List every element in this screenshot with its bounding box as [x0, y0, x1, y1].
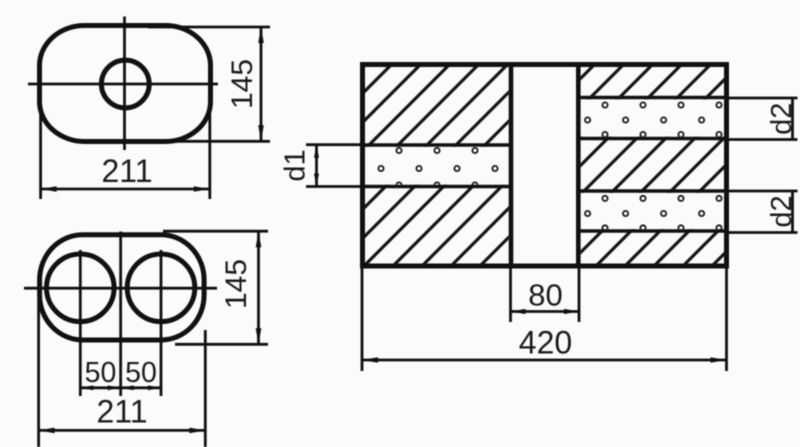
svg-text:80: 80: [528, 278, 562, 313]
right band 2 top border: [578, 189, 726, 193]
d1 extension line top: [306, 143, 362, 146]
left band top border: [363, 143, 512, 147]
extension line left (211 dim): [37, 300, 40, 447]
left perforated band interior: [365, 147, 509, 185]
svg-text:211: 211: [96, 394, 147, 430]
center pipe left border: [509, 65, 514, 267]
extension line top (145 dim): [148, 26, 270, 29]
dimension line 211 (horizontal): [41, 188, 210, 191]
svg-text:211: 211: [101, 153, 152, 189]
left chamber hatching: [365, 67, 509, 264]
extension line right (211 dim): [204, 330, 207, 447]
dimension line 145 (vertical): [257, 231, 260, 344]
extension line top (145 dim): [163, 230, 268, 233]
d2 lower extension line top: [727, 190, 798, 193]
svg-text:50: 50: [125, 357, 157, 389]
svg-text:420: 420: [519, 325, 572, 361]
420 extension line right: [725, 268, 728, 371]
extension line bottom (145 dim): [175, 343, 268, 346]
420 extension line left: [361, 268, 364, 371]
svg-text:d2: d2: [766, 195, 798, 227]
dimension line 145 (vertical): [260, 27, 263, 141]
d1 dimension line: [315, 145, 318, 187]
left circle vertical center line / extension: [79, 250, 82, 396]
extension line bottom (145 dim): [172, 140, 270, 143]
horizontal center line: [28, 83, 218, 86]
d2 upper dimension line: [791, 98, 794, 140]
d2 lower dimension line: [791, 191, 794, 233]
body interior: [365, 67, 724, 264]
horizontal center line: [24, 287, 217, 290]
extension line left (211 dim): [39, 98, 42, 199]
center pipe right border: [576, 65, 581, 267]
svg-text:d1: d1: [280, 149, 312, 181]
extension line right (211 dim): [208, 98, 211, 199]
right circle vertical center line / extension: [160, 250, 163, 396]
svg-text:145: 145: [226, 59, 259, 109]
dimension line 80: [511, 310, 580, 313]
middle vertical center line / extension: [119, 232, 122, 397]
d2 upper extension line top: [727, 97, 798, 100]
d1 extension line bottom: [306, 185, 362, 188]
svg-text:145: 145: [220, 259, 253, 309]
oval body outline (bottom view): [40, 235, 205, 340]
right pipe circle: [127, 254, 195, 322]
svg-text:d2: d2: [766, 103, 798, 135]
dimension line 50 left: [80, 386, 120, 389]
d2 upper extension line bottom: [727, 138, 798, 141]
right perforated band 2 interior: [581, 193, 724, 229]
dimension line 420: [362, 359, 727, 362]
right band 1 top border: [578, 96, 726, 100]
dimension line 211 (horizontal): [39, 429, 206, 432]
dimension line 50 right: [121, 386, 161, 389]
inlet pipe circle: [101, 60, 149, 108]
right band 1 bottom border: [578, 137, 726, 141]
body outline: [363, 65, 727, 267]
left pipe circle: [47, 254, 115, 322]
oval body outline (top view): [40, 26, 211, 142]
left band bottom border: [363, 185, 512, 189]
svg-text:50: 50: [85, 357, 117, 389]
right chamber hatching: [581, 67, 724, 264]
vertical center line: [123, 17, 126, 151]
80 extension line left: [509, 268, 512, 322]
right band 2 bottom border: [578, 229, 726, 233]
d2 lower extension line bottom: [727, 231, 798, 234]
80 extension line right: [578, 268, 581, 322]
right perforated band 1 interior: [581, 99, 724, 136]
